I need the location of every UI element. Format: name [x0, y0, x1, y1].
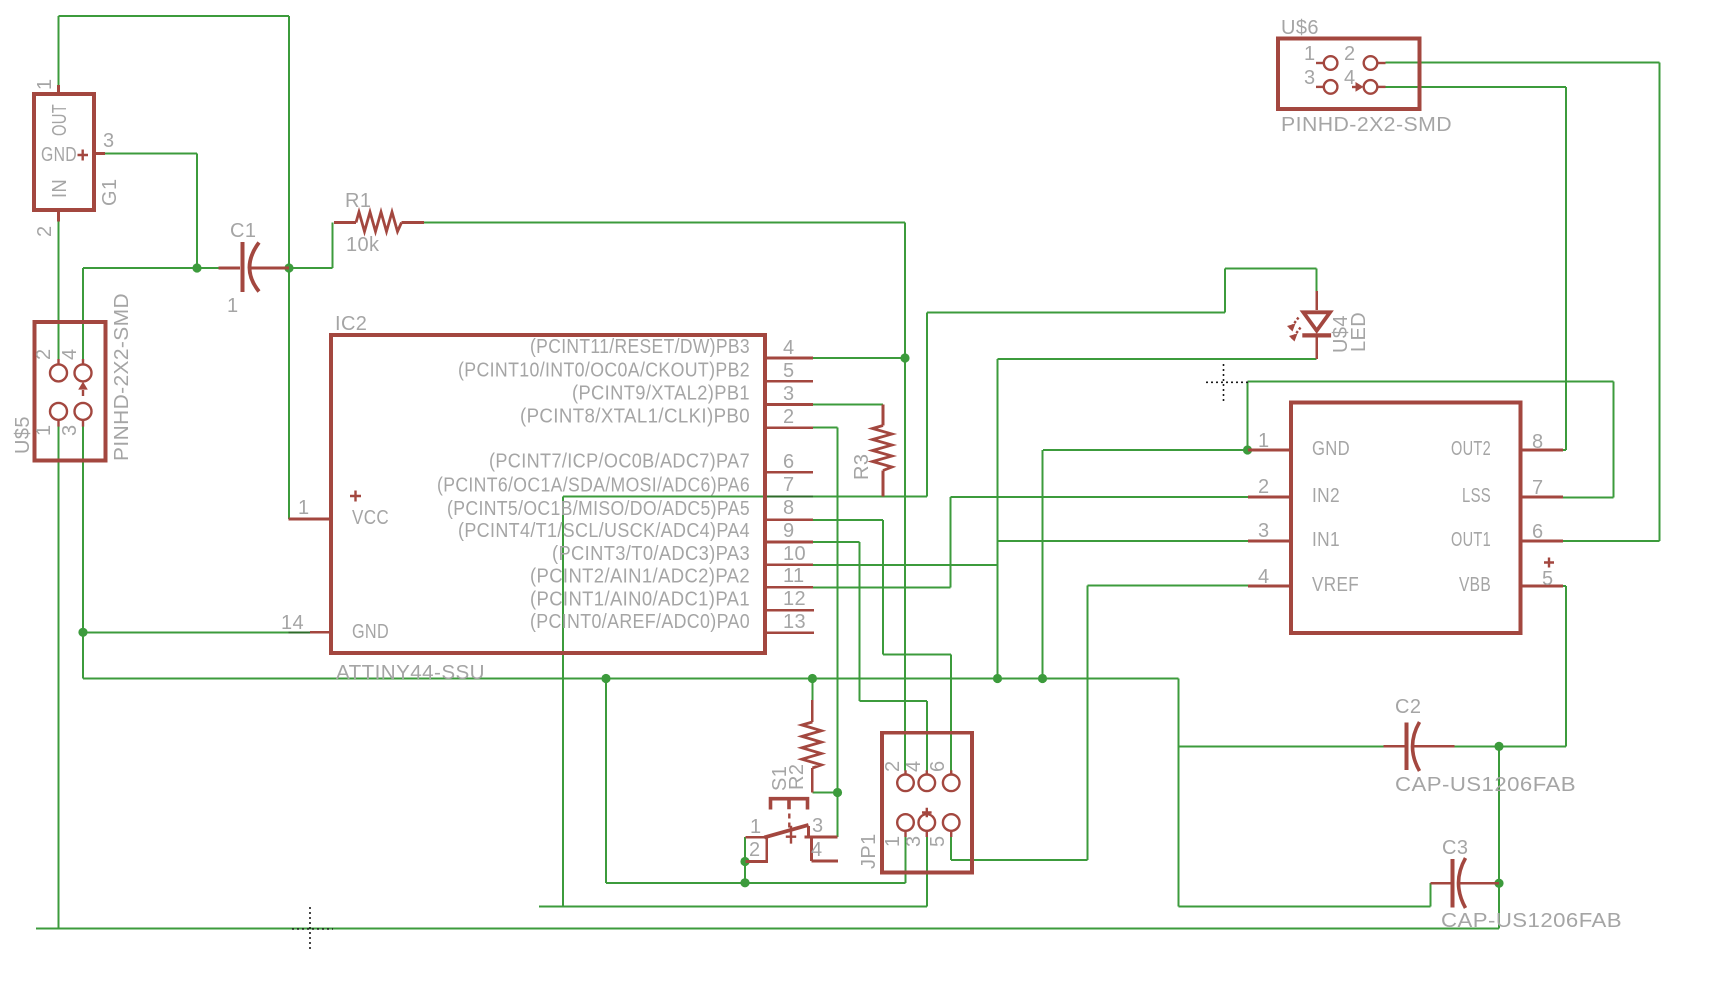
junction S1 pin 2	[740, 857, 749, 866]
JP1 plus mark	[922, 808, 932, 818]
wire U$5 pin 3 down to GND dot and rail	[83, 427, 1179, 679]
junction C3 right	[1494, 879, 1503, 888]
svg-text:OUT1: OUT1	[1451, 529, 1491, 551]
sheet origin cross right	[1206, 364, 1251, 401]
switch S1 pin 1 lead	[745, 836, 766, 839]
wire S1 bottom horizontal to JP1 pin 1	[606, 882, 906, 884]
wire IN1 horizontal	[998, 540, 1249, 542]
wire VCC right drop to C1 junction	[288, 16, 290, 268]
wire VBB to C2 junction	[1499, 586, 1566, 746]
svg-text:VCC: VCC	[352, 507, 389, 529]
wire regulator pin 3 to corner	[105, 153, 197, 155]
svg-text:GND: GND	[352, 621, 389, 643]
wire C3 junction down to bottom rail	[1498, 883, 1500, 928]
svg-text:(PCINT9/XTAL2)PB1: (PCINT9/XTAL2)PB1	[572, 383, 750, 405]
wire LED bottom down to GND rail	[997, 359, 999, 679]
svg-text:1: 1	[750, 816, 762, 838]
svg-text:PINHD-2X2-SMD: PINHD-2X2-SMD	[111, 293, 133, 461]
svg-text:IN: IN	[49, 179, 71, 198]
wire U$6 pin 2 to OUT1	[1386, 63, 1660, 541]
switch S1 origin cross	[786, 826, 796, 844]
svg-text:OUT: OUT	[49, 104, 71, 136]
switch S1 pin 2 lead	[745, 837, 766, 861]
wire pin 14 stub overlap	[289, 631, 311, 633]
wire C2 junction down to C3 junction	[1498, 746, 1500, 883]
svg-text:IN1: IN1	[1312, 529, 1340, 551]
svg-text:2: 2	[783, 406, 795, 428]
U$6 pin 3	[1316, 80, 1337, 94]
capacitor C1	[219, 242, 290, 292]
svg-text:(PCINT11/RESET/DW)PB3: (PCINT11/RESET/DW)PB3	[530, 336, 750, 358]
wire PA2 to IN2	[813, 497, 1248, 587]
svg-text:5: 5	[783, 360, 795, 382]
U$5 pin 3	[75, 403, 92, 427]
svg-text:C2: C2	[1395, 696, 1421, 718]
svg-text:(PCINT3/T0/ADC3)PA3: (PCINT3/T0/ADC3)PA3	[552, 543, 750, 565]
junction rail S1	[601, 674, 610, 683]
junction rail R2	[808, 674, 817, 683]
JP1 pin 6	[943, 770, 960, 791]
U$6 pin 1	[1316, 56, 1337, 70]
wire GND riser and run to LSS	[1248, 382, 1614, 498]
switch S1 actuator	[771, 799, 808, 810]
switch S1 pin 3 lead	[805, 826, 838, 837]
wire LED bottom run	[998, 358, 1317, 360]
wire GND dot to IC2 pin 14	[83, 631, 289, 633]
wire R2 bottom link	[812, 792, 837, 794]
svg-text:(PCINT5/OC1B/MISO/DO/ADC5)PA5: (PCINT5/OC1B/MISO/DO/ADC5)PA5	[447, 498, 750, 520]
svg-text:1: 1	[882, 835, 904, 847]
wire bottom run to C3 left	[1179, 883, 1431, 906]
junction R2 bottom	[833, 788, 842, 797]
svg-text:1: 1	[298, 497, 310, 519]
svg-text:10: 10	[783, 543, 806, 565]
svg-text:R1: R1	[345, 190, 371, 212]
svg-text:6: 6	[783, 451, 795, 473]
wire corner down to C1 left junction	[196, 154, 198, 269]
svg-text:3: 3	[783, 383, 795, 405]
wire PA5 to JP1 pin 6	[813, 520, 951, 771]
wire C1 left junction to U$5 pin 4 branch	[83, 267, 219, 269]
svg-text:3: 3	[1258, 520, 1270, 542]
junction C1 left	[192, 263, 201, 272]
svg-text:CAP-US1206FAB: CAP-US1206FAB	[1395, 774, 1576, 796]
wire U$6 pin 4 to OUT2	[1386, 87, 1567, 450]
wire R1 right to PB3 junction	[424, 223, 906, 359]
svg-text:(PCINT7/ICP/OC0B/ADC7)PA7: (PCINT7/ICP/OC0B/ADC7)PA7	[489, 450, 750, 472]
wire S1 drop from rail	[605, 679, 607, 883]
IC U1 VBB plus mark	[1544, 558, 1554, 568]
svg-text:R3: R3	[851, 454, 873, 480]
svg-text:8: 8	[783, 497, 795, 519]
svg-text:ATTINY44-SSU: ATTINY44-SSU	[336, 662, 485, 684]
JP1 pin 4	[919, 770, 936, 791]
wire U$5 pin 4 vertical	[82, 268, 84, 359]
svg-text:C1: C1	[230, 220, 256, 242]
U$6 pin 4	[1352, 80, 1386, 94]
IC2 pin 14 stub	[310, 631, 331, 634]
svg-text:CAP-US1206FAB: CAP-US1206FAB	[1441, 910, 1622, 932]
svg-text:U$5: U$5	[12, 416, 34, 454]
JP1 pin 2	[897, 770, 914, 791]
svg-text:4: 4	[783, 337, 795, 359]
junction S1 bottom	[740, 878, 749, 887]
svg-text:4: 4	[1344, 67, 1356, 89]
wire PA4 to JP1 pin 4	[813, 542, 927, 770]
LED U$4	[1287, 291, 1331, 359]
U$5 pin 2	[50, 359, 67, 381]
svg-text:7: 7	[783, 474, 795, 496]
IC2 ATTINY44 box	[331, 335, 765, 653]
svg-text:3: 3	[903, 835, 925, 847]
wire GND dot down from pin10 line	[1042, 450, 1044, 679]
svg-text:1: 1	[33, 424, 55, 436]
wire VCC top horizontal	[59, 15, 290, 17]
wire PA6 net horizontal through IC body	[563, 496, 765, 498]
svg-text:13: 13	[783, 611, 806, 633]
svg-text:VREF: VREF	[1312, 574, 1359, 596]
svg-text:7: 7	[1532, 477, 1544, 499]
svg-text:(PCINT8/XTAL1/CLKI)PB0: (PCINT8/XTAL1/CLKI)PB0	[520, 406, 750, 428]
svg-text:R2: R2	[786, 764, 808, 790]
svg-text:IC2: IC2	[335, 313, 367, 335]
wire PA6 stub overlap	[765, 496, 813, 498]
JP1 pin 5	[943, 814, 960, 837]
svg-text:C3: C3	[1442, 837, 1468, 859]
JP1 pin 3	[919, 814, 936, 837]
wire PB3 stub to junction	[813, 357, 905, 359]
wire GND to right IC pin 1	[1043, 449, 1248, 451]
wire C1 junction down to IC2 VCC pin 1	[288, 268, 290, 519]
svg-text:(PCINT6/OC1A/SDA/MOSI/ADC6)PA6: (PCINT6/OC1A/SDA/MOSI/ADC6)PA6	[437, 475, 750, 497]
svg-text:JP1: JP1	[858, 833, 880, 869]
wire C2 right lead to junction	[1455, 745, 1500, 747]
switch S1 plunger dashes	[788, 814, 790, 828]
wire VCC left drop to regulator pin 1	[58, 16, 60, 85]
IC U1 right pin stubs	[1521, 450, 1564, 586]
svg-text:(PCINT10/INT0/OC0A/CKOUT)PB2: (PCINT10/INT0/OC0A/CKOUT)PB2	[458, 359, 750, 381]
svg-text:14: 14	[281, 612, 304, 634]
svg-text:(PCINT0/AREF/ADC0)PA0: (PCINT0/AREF/ADC0)PA0	[530, 611, 750, 633]
switch S1 pin 4 lead	[812, 839, 838, 862]
junction C1 right	[284, 263, 293, 272]
resistor R2	[802, 700, 822, 792]
svg-text:1: 1	[1258, 430, 1270, 452]
junction C2 right	[1494, 742, 1503, 751]
svg-text:2: 2	[1344, 43, 1356, 65]
svg-text:(PCINT1/AIN0/ADC1)PA1: (PCINT1/AIN0/ADC1)PA1	[530, 588, 750, 610]
svg-text:3: 3	[812, 815, 824, 837]
wire GND rail right corner down	[1178, 679, 1180, 907]
svg-text:4: 4	[903, 760, 925, 772]
wire bottom GND rail	[36, 928, 1499, 930]
U$6 pin 2	[1364, 56, 1386, 70]
wire PB0 to S1 pin 3	[813, 428, 838, 837]
svg-text:GND: GND	[1312, 438, 1350, 460]
wire bottom middle horizontal to JP1 pin 3	[539, 837, 927, 906]
wire branch to C2 left	[1179, 745, 1384, 747]
svg-text:PINHD-2X2-SMD: PINHD-2X2-SMD	[1281, 114, 1452, 136]
svg-text:1: 1	[1304, 43, 1316, 65]
pin header U$5	[35, 322, 106, 461]
svg-text:LED: LED	[1348, 312, 1370, 352]
svg-text:2: 2	[33, 348, 55, 360]
sheet origin cross bottom	[292, 907, 333, 951]
wire PA6 net vertical through IC body	[562, 497, 564, 907]
wire JP1 pin 1 riser	[905, 837, 907, 883]
junction rail LED line	[993, 674, 1002, 683]
svg-text:9: 9	[783, 520, 795, 542]
svg-text:3: 3	[59, 424, 81, 436]
junction rail GND line	[1038, 674, 1047, 683]
svg-text:5: 5	[927, 835, 949, 847]
svg-text:2: 2	[749, 839, 761, 861]
switch S1 lever	[764, 825, 808, 838]
wire R2 top lead	[811, 679, 813, 701]
resistor R3	[873, 405, 893, 497]
svg-text:4: 4	[811, 839, 823, 861]
IC2 right pin stubs	[765, 358, 814, 633]
svg-text:(PCINT4/T1/SCL/USCK/ADC4)PA4: (PCINT4/T1/SCL/USCK/ADC4)PA4	[458, 520, 750, 542]
svg-text:6: 6	[927, 760, 949, 772]
svg-text:11: 11	[783, 565, 805, 587]
wire U$5 pin 1 down to bottom rail	[58, 427, 60, 929]
svg-text:LSS: LSS	[1462, 485, 1491, 507]
svg-text:6: 6	[1532, 521, 1544, 543]
wire VREF horizontal	[1088, 585, 1249, 587]
wire C1 right junction to R1 corner	[289, 223, 332, 269]
capacitor C2	[1384, 722, 1455, 771]
wire PA3 horizontal	[813, 564, 998, 566]
svg-text:4: 4	[59, 348, 81, 360]
wire PB1 to R3	[813, 404, 883, 406]
svg-text:12: 12	[783, 588, 806, 610]
regulator G1 plus mark	[78, 150, 89, 161]
svg-text:U$6: U$6	[1281, 17, 1319, 39]
wire S1 pins 1-2 link	[744, 837, 746, 883]
svg-text:8: 8	[1532, 431, 1544, 453]
junction right IC GND pin	[1243, 445, 1252, 454]
svg-text:2: 2	[34, 225, 56, 237]
IC2 pin 1 stub	[289, 518, 332, 521]
svg-text:IN2: IN2	[1312, 485, 1340, 507]
svg-text:10k: 10k	[346, 234, 380, 256]
IC U1 left pin stubs	[1248, 450, 1291, 586]
JP1 pin 1	[897, 814, 914, 837]
svg-text:2: 2	[882, 760, 904, 772]
U$5 pin 1	[50, 403, 67, 427]
capacitor C3	[1431, 858, 1500, 908]
svg-text:5: 5	[1542, 568, 1554, 590]
svg-text:3: 3	[1304, 67, 1316, 89]
junction pin 14 line	[78, 628, 87, 637]
pin header U$6	[1278, 39, 1420, 110]
svg-text:(PCINT2/AIN1/ADC2)PA2: (PCINT2/AIN1/ADC2)PA2	[530, 565, 750, 587]
svg-text:G1: G1	[99, 179, 121, 206]
svg-text:2: 2	[1258, 476, 1270, 498]
regulator G1	[34, 85, 105, 222]
resistor R1	[334, 212, 424, 232]
pin header JP1	[882, 733, 972, 873]
wire VREF down to JP1 pin 5	[951, 586, 1087, 860]
svg-text:3: 3	[103, 130, 115, 152]
svg-text:4: 4	[1258, 566, 1270, 588]
wire PA6 to LED top	[813, 268, 1317, 496]
svg-text:1: 1	[227, 295, 239, 317]
svg-text:VBB: VBB	[1459, 574, 1491, 596]
wire regulator pin 2 down to U$5 pin 2	[58, 222, 60, 360]
svg-text:1: 1	[34, 78, 56, 90]
wire RESET vertical down to JP1 pin 2	[904, 358, 906, 770]
IC U1 motor driver box	[1291, 403, 1521, 634]
svg-text:OUT2: OUT2	[1451, 438, 1491, 460]
U$5 pin 4	[75, 359, 92, 396]
IC2 VCC plus mark	[350, 491, 361, 502]
junction PB3 R1	[900, 353, 909, 362]
svg-text:GND: GND	[41, 144, 77, 166]
